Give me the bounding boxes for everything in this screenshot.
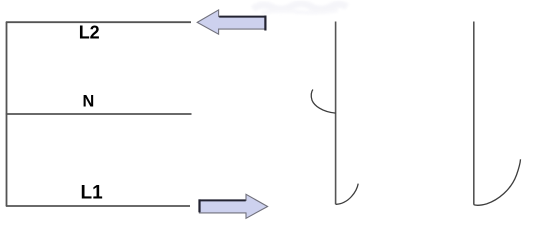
svg-text:L1: L1	[81, 182, 104, 203]
wire: hooked end arc of wire 2 (bottom)	[474, 159, 521, 205]
arrow: left-pointing block arrow (top, incoming on L2)	[197, 10, 266, 34]
wire: hooked branch arc on wire 1 (mid)	[311, 90, 335, 114]
wire: L2 line (top horizontal)	[6, 21, 191, 23]
svg-text:L2: L2	[79, 23, 100, 43]
arrow: right-pointing block arrow (bottom, outgoing on L1)	[199, 194, 268, 218]
wire: vertical drop wire 1	[335, 22, 337, 205]
faint background smudge (jpeg ghost)	[253, 4, 347, 13]
svg-text:N: N	[83, 92, 95, 110]
wire: L1 line (bottom horizontal)	[6, 205, 190, 207]
wire: hooked end arc of wire 1 (bottom)	[336, 184, 359, 205]
wire: vertical drop wire 2	[473, 22, 475, 205]
node L1 label: serif foot of digit 1	[94, 196, 102, 198]
wire: left vertical bus	[6, 22, 8, 206]
wire: N line (middle horizontal)	[6, 113, 192, 115]
